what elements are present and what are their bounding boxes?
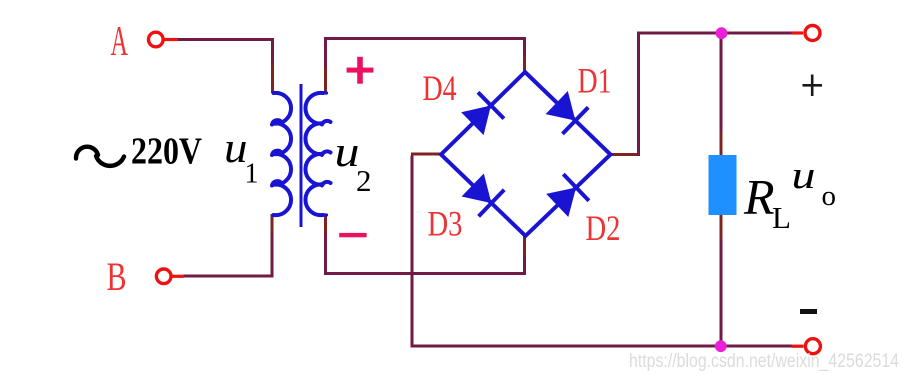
resistor RL (load): [709, 155, 737, 215]
svg-text:A: A: [111, 19, 129, 65]
wire secondary bottom to bridge bottom vertex: [326, 233, 525, 274]
svg-text:2: 2: [356, 163, 372, 198]
wire A horizontal from terminal A to transformer primary top: [177, 40, 273, 65]
diode D3: [462, 174, 505, 217]
secondary polarity plus (pink): [347, 57, 374, 84]
svg-text:u: u: [792, 154, 816, 197]
wire secondary top lead stub: [324, 66, 327, 93]
svg-text:D3: D3: [428, 204, 463, 244]
svg-text:1: 1: [245, 159, 259, 190]
svg-text:D1: D1: [578, 61, 612, 101]
wire RL bottom stub: [720, 213, 723, 240]
wire bridge bottom vertex stub: [523, 236, 526, 256]
transformer core: [300, 84, 303, 227]
svg-text:220V: 220V: [131, 131, 202, 173]
wire left riser down to bottom rail: [412, 156, 792, 347]
transformer primary winding u1: [272, 93, 291, 215]
wire bridge left vertex stub: [411, 153, 441, 156]
junction node top (dot): [716, 27, 728, 39]
svg-text:L: L: [772, 200, 791, 235]
svg-text:https://blog.csdn.net/weixin_4: https://blog.csdn.net/weixin_42562514: [629, 351, 899, 372]
wire bridge right vertex stub: [610, 153, 639, 156]
transformer secondary winding u2: [305, 93, 330, 215]
output polarity plus (black): [803, 75, 823, 97]
junction node bottom (dot): [715, 340, 727, 352]
wire from top junction down to RL: [720, 33, 723, 132]
wire secondary top to bridge top: [326, 39, 525, 68]
wire bridge top vertex stub: [523, 56, 526, 71]
svg-text:o: o: [822, 180, 837, 212]
diode D2: [546, 174, 589, 217]
terminal A: [149, 32, 179, 47]
terminal output plus: [792, 26, 821, 41]
wire right riser to top output rail: [639, 33, 793, 156]
svg-text:B: B: [107, 254, 127, 299]
diode D4: [461, 92, 504, 135]
diode D1: [546, 91, 589, 134]
terminal output minus: [792, 339, 821, 354]
wire primary top lead stub: [271, 63, 274, 93]
svg-text:R: R: [743, 169, 775, 225]
secondary polarity minus (pink): [339, 233, 366, 237]
svg-text:D4: D4: [423, 68, 457, 108]
wire primary bottom lead stub: [271, 214, 274, 234]
wire B vertical and horizontal to terminal B: [183, 233, 272, 276]
bridge diamond wires: [441, 72, 611, 236]
AC source tilde symbol: [76, 147, 124, 166]
wire RL top stub: [720, 131, 723, 157]
svg-text:D2: D2: [586, 208, 621, 248]
wire RL bottom to bottom junction: [720, 239, 723, 346]
terminal B: [156, 269, 184, 284]
wire secondary bottom lead stub: [324, 214, 327, 234]
output polarity minus (black): [800, 309, 817, 314]
